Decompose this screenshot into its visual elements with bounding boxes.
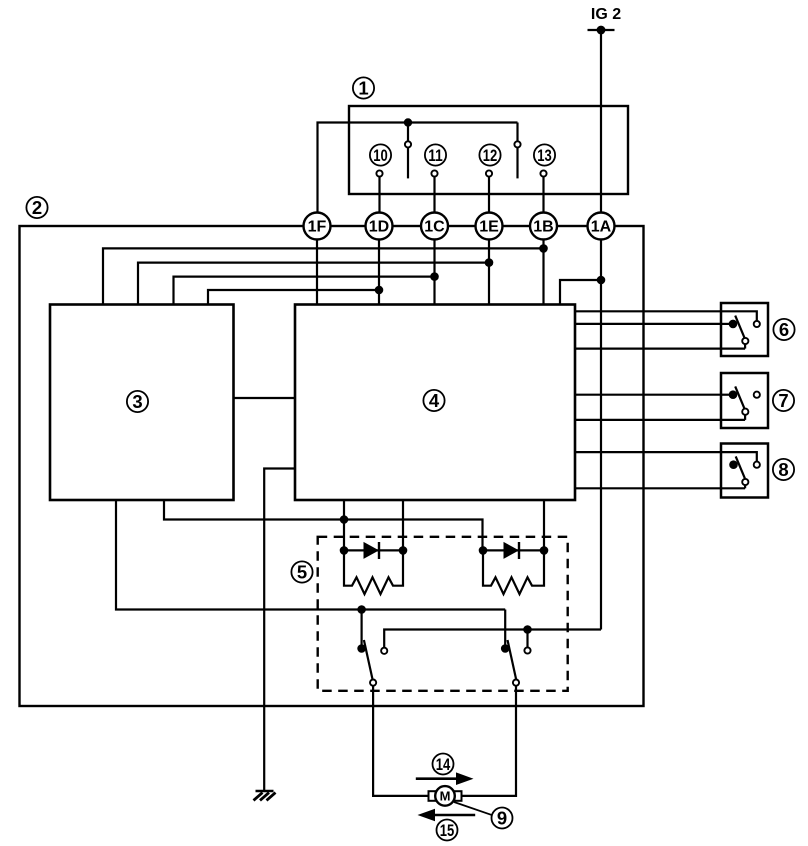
svg-text:5: 5 [297, 562, 307, 583]
label 14 [433, 754, 454, 775]
terminal 11 [431, 170, 437, 213]
wire 1C to box4 [433, 226, 435, 305]
wire sw6 lever stub [744, 344, 746, 348]
terminal 12 [486, 170, 492, 213]
wire box4 to sw6 top contact [575, 311, 757, 321]
svg-text:7: 7 [778, 390, 788, 411]
wire bus line 2 (1E to box3) [138, 263, 489, 305]
svg-text:1: 1 [358, 78, 368, 99]
switch armature S2 in box1 [514, 123, 520, 179]
connector 1A [588, 213, 615, 240]
connector 1B [530, 213, 557, 240]
wire sw7 lever stub [744, 415, 746, 420]
label 1 [353, 77, 374, 98]
wire box4 to sw8 lever [575, 487, 745, 489]
svg-text:1B: 1B [533, 219, 553, 236]
label 9 [492, 808, 513, 829]
wire sw8 lever stub [744, 485, 746, 488]
junction on diode feed [340, 515, 349, 524]
svg-text:1F: 1F [308, 219, 327, 236]
svg-text:1A: 1A [591, 219, 612, 236]
svg-text:IG 2: IG 2 [591, 6, 621, 23]
switch K2 [501, 640, 531, 686]
junction switch feed left [357, 605, 366, 614]
svg-text:13: 13 [537, 146, 552, 165]
svg-text:1E: 1E [479, 219, 499, 236]
arrow left (15) [418, 809, 476, 822]
wire box4 to ground [264, 469, 295, 792]
motor M [429, 786, 462, 806]
junction diode2 right [540, 546, 549, 555]
box 4 [295, 305, 575, 501]
box 6 [721, 303, 768, 356]
wire K1 to motor [373, 686, 428, 796]
wire box4 to sw6 pivot [575, 323, 729, 325]
wire bus in box1 [318, 123, 518, 214]
resistor R2 [483, 550, 544, 594]
svg-text:6: 6 [779, 319, 789, 340]
junction contact K2 [523, 625, 532, 634]
junction at 1C [430, 272, 439, 281]
svg-text:10: 10 [373, 146, 388, 165]
label 5 [291, 561, 312, 582]
wire box4 to sw6 lever [575, 348, 745, 350]
box 8 [721, 444, 768, 498]
label 12 [479, 144, 500, 165]
wire K2 to motor [462, 686, 517, 796]
box 7 [721, 373, 768, 428]
label 2 [26, 197, 47, 218]
node IG 2 [588, 6, 622, 34]
wire to K2 contact [526, 630, 528, 648]
wire 1A to switch contacts [384, 630, 601, 648]
svg-text:4: 4 [429, 390, 440, 411]
wire box4 to sw7 pivot [575, 394, 729, 396]
label 4 [423, 390, 444, 411]
junction at 1E [485, 258, 494, 267]
wire 1A branch to box4 top [560, 280, 601, 305]
label 3 [127, 391, 148, 412]
box 1 (switch unit) [349, 106, 628, 194]
wire 1B to box4 [542, 226, 544, 305]
wire 1D to box4 [378, 226, 380, 305]
junction at 1D [375, 286, 384, 295]
svg-text:M: M [440, 789, 451, 804]
wire 1F to box4 [316, 226, 318, 305]
label 11 [425, 144, 446, 165]
wire bus line 3 (1C to box3) [174, 277, 435, 305]
wire box3 to box4 [234, 397, 296, 399]
label 10 [370, 144, 391, 165]
svg-text:1D: 1D [369, 219, 389, 236]
ground [254, 791, 276, 800]
wire to switch K1 pivot [361, 610, 363, 649]
terminal 10 [376, 170, 382, 213]
label 8 [773, 459, 794, 480]
label 6 [773, 319, 794, 340]
switch in box 8 [721, 452, 760, 488]
svg-text:12: 12 [483, 146, 498, 165]
junction on 1A wire [597, 276, 606, 285]
wire bus line 4 (1D to box3) [208, 290, 379, 305]
wire to switch K2 pivot [504, 610, 506, 649]
svg-text:1C: 1C [424, 219, 445, 236]
connector 1E [476, 213, 503, 240]
wire box4 to sw7 lever [575, 419, 745, 421]
junction at 1B [539, 244, 548, 253]
wire box3 to switch pivots [116, 500, 505, 610]
svg-text:2: 2 [32, 197, 42, 218]
label 15 [437, 820, 458, 841]
svg-text:14: 14 [436, 755, 451, 774]
junction diode1 left [340, 546, 349, 555]
svg-text:9: 9 [497, 808, 507, 829]
arrow right (14) [416, 772, 474, 785]
wire IG2 to 1A [600, 30, 602, 213]
wire 1E to box4 [488, 226, 490, 305]
svg-text:8: 8 [778, 459, 788, 480]
label 13 [534, 144, 555, 165]
switch armature S1 in box1 [404, 118, 412, 178]
box 5 (dashed relay unit) [318, 537, 568, 691]
box 2 (control module outline) [20, 226, 644, 706]
wire box4 to sw8 top contact [575, 452, 757, 461]
pointer to motor [454, 802, 492, 815]
wire box3 to diode bridge [164, 500, 483, 550]
svg-text:11: 11 [428, 146, 443, 165]
connector 1F [304, 213, 331, 240]
box 3 [50, 305, 234, 501]
label 7 [773, 390, 794, 411]
diode D1 [364, 542, 380, 559]
wire diode1 node bar [344, 549, 403, 551]
connector 1D [366, 213, 393, 240]
wire box4 to diode1 right [402, 500, 404, 550]
diode D2 [504, 542, 520, 559]
wire box4 to diode1 left [343, 500, 345, 550]
switch K1 [357, 640, 387, 686]
junction diode1 right [399, 546, 408, 555]
switch in box 7 [721, 386, 760, 420]
terminal 13 [540, 170, 546, 213]
svg-text:15: 15 [440, 821, 455, 840]
wire bus line 1 (1B to box3) [103, 248, 544, 304]
wire 1A down [600, 226, 602, 630]
switch in box 6 [721, 311, 760, 348]
junction diode2 left [479, 546, 488, 555]
connector 1C [421, 213, 448, 240]
wire diode2 node bar [483, 549, 544, 551]
wire box4 to diode2 right [543, 500, 545, 550]
svg-text:3: 3 [132, 391, 142, 412]
resistor R1 [344, 550, 403, 594]
